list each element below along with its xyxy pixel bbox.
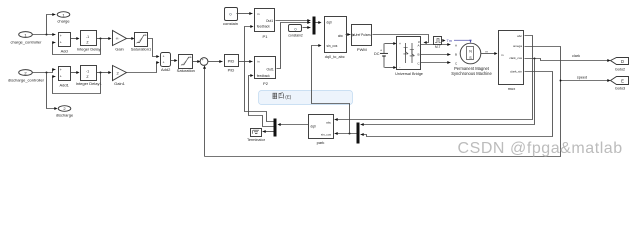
wire demux q to P2 feedback [249,74,274,127]
wire feedback loop row2 to Add1 in2 [52,73,100,94]
wire omega to speed goto and feedback [203,47,611,157]
svg-text:speed: speed [577,76,587,80]
wire Add to Integer Delay [71,37,80,40]
svg-text:E: E [621,78,624,83]
wire abc feedback to park [335,36,533,122]
svg-text:Synchronous Machine: Synchronous Machine [451,71,492,76]
svg-text:+: + [202,58,204,62]
svg-text:+: + [163,60,165,64]
svg-text:Out1: Out1 [266,19,273,23]
node clark label [572,54,580,58]
wire Saturation1 to Add2 in1 [148,39,160,59]
sum block Add2 [161,53,172,73]
wire P2 Out1 up to mux in2 [277,21,311,69]
wire branch up to outport charge [47,13,56,35]
svg-text:discharge: discharge [56,113,74,118]
wire PWM to bridge gate [373,35,429,45]
svg-text:in: in [257,60,260,64]
svg-text:+: + [60,68,62,72]
wire discharge_controller to Add1 in1 [33,68,56,73]
svg-text:Add1: Add1 [60,83,70,88]
block Integer Delay [77,31,101,52]
junction clark_cos branch [534,58,536,60]
svg-text:Saturation1: Saturation1 [131,47,152,52]
outport 2 discharge [56,106,74,118]
inport 2 discharge_controller [8,70,45,83]
svg-text:omega: omega [513,44,523,48]
svg-text:feedback: feedback [257,74,270,78]
svg-text:dq0: dq0 [311,124,317,128]
node Tm [447,39,472,43]
svg-text:PID: PID [228,68,235,73]
constant constain2 [288,25,303,38]
machine PMSM [451,43,492,76]
wire Gain1 to Add2 in2 [127,61,160,73]
outport 1 charge [57,12,70,24]
svg-text:constain2: constain2 [288,33,303,37]
junction on charge_controller wire [46,34,48,36]
svg-text:in: in [257,12,260,16]
wire Saturation to sum junction [193,60,201,63]
svg-text:Gain: Gain [115,47,123,52]
wire constain to P1 in [237,12,253,15]
svg-text:-K-: -K- [116,37,120,41]
svg-text:Goto2: Goto2 [615,67,625,71]
junction feedback row2 [100,72,102,74]
junction sin_cos branch [349,133,351,135]
gain Gain1 [113,66,127,87]
wire Add1 to Integer Delay1 [71,71,80,74]
svg-text:Universal Bridge: Universal Bridge [395,72,423,76]
wire Integer Delay1 to Gain1 [97,71,112,74]
wire clark mux to park sin_cos [335,132,357,135]
svg-text:abc: abc [517,34,522,38]
wire charge_controller to Add in1 [33,33,56,36]
sum block Add1 [59,67,71,88]
svg-text:Add2: Add2 [161,67,171,72]
wire sin_cos up to dq0_to_abc [312,44,350,134]
svg-text:B: B [455,52,457,56]
svg-text:Saturation: Saturation [177,68,195,73]
wire PID to P2 in [239,60,253,63]
svg-text:Uref Pulses: Uref Pulses [354,33,371,37]
demux dq bar [274,119,277,137]
svg-text:(E): (E) [285,95,292,100]
svg-text:feedback: feedback [257,25,270,29]
svg-text:sin_cos: sin_cos [321,132,332,136]
svg-text:Integer Delay: Integer Delay [77,47,101,52]
svg-text:+: + [60,75,62,79]
svg-text:P2: P2 [263,81,269,86]
wire constain2 to mux in3 [303,26,311,29]
wire DC minus to bridge [385,66,397,69]
wire branch down to outport discharge [47,73,58,111]
svg-text:abc: abc [338,34,344,38]
wire bridge B to machine B [421,53,451,56]
mux clark bar [357,123,360,144]
svg-text:Goto3: Goto3 [615,87,625,91]
svg-text:constain: constain [223,21,238,26]
mux dq0 bar [313,17,316,35]
wire Add2 to Saturation [171,59,178,62]
svg-text:PID: PID [228,59,235,64]
svg-text:+: + [60,34,62,38]
wire clark_cos down to clark mux [361,59,535,127]
svg-text:charge_controller: charge_controller [11,39,43,44]
wire mux bar to dq0_to_abc [316,21,322,24]
svg-text:Gain1: Gain1 [114,81,125,86]
block Saturation [177,55,195,74]
block Terminator [247,129,266,142]
junction omega to goto3 [560,80,562,82]
wire sum junction to PID [208,60,223,63]
svg-text:N: N [469,50,472,54]
wire M.T to Tm [442,39,445,42]
svg-text:clark_cos: clark_cos [509,56,522,60]
tooltip menu item [259,91,353,105]
sum block Add [59,33,71,54]
svg-text:+: + [163,54,165,58]
svg-text:A: A [417,44,419,48]
wire bridge A to machine A [421,43,451,46]
svg-text:+: + [380,49,382,53]
sum junction circle [200,58,208,67]
svg-text:CSDN @fpga&matlab: CSDN @fpga&matlab [458,140,623,157]
subsystem P2 [255,57,276,86]
wire feedback loop row1 to Add in2 [52,39,100,55]
wire demux d to P1 feedback [245,25,274,122]
wire clark_sin down to clark mux [361,72,553,137]
svg-text:P1: P1 [263,34,269,39]
subsystem P1 [255,9,275,39]
svg-text:Tm: Tm [447,39,452,43]
DC voltage source [374,44,388,68]
svg-text:-: - [399,66,400,70]
svg-text:clark_sin: clark_sin [510,70,522,74]
wire Integer Delay to Gain [97,37,112,40]
subsystem dq0_to_abc [325,17,347,60]
svg-text:Out1: Out1 [266,67,273,71]
block Integer Delay1 [76,66,103,87]
svg-text:M.T: M.T [435,45,441,49]
svg-text:-1: -1 [86,70,89,74]
goto Goto3 [611,77,629,91]
wire P1 Out1 to mux in1 [276,19,311,22]
wire machine m to mux block [481,50,498,55]
wire dq0_to_abc abc to PWM [346,33,351,36]
watermark CSDN [458,140,623,157]
wire park dq0 to demux bar [278,123,309,126]
junction feedback row1 [100,38,102,40]
svg-text:Integer Delay1: Integer Delay1 [76,81,103,86]
gain Gain [113,31,127,52]
svg-text:discharge_controller: discharge_controller [8,77,45,82]
svg-text:abc: abc [326,121,331,125]
svg-text:DC: DC [374,52,380,56]
svg-text:dq0_to_abc: dq0_to_abc [325,55,345,59]
svg-text:+: + [60,41,62,45]
subsystem park [309,115,334,146]
svg-text:clark: clark [572,54,580,58]
block PID [225,55,239,73]
node speed label [577,76,587,80]
wire Gain to Saturation1 [127,37,135,40]
svg-text:charge: charge [57,19,70,24]
svg-text:B: B [417,53,419,57]
goto Goto2 [611,58,629,72]
svg-text:A: A [455,43,457,47]
svg-text:park: park [317,140,325,145]
svg-text:-1: -1 [86,35,89,39]
source block M.T [434,37,442,50]
block PWM Uref Pulses [352,25,372,53]
svg-text:Add: Add [61,49,68,54]
svg-text:D: D [621,59,624,64]
inport 1 charge_controller [11,32,43,45]
wire demux zero to Terminator [263,130,274,133]
wire bridge C to machine C [421,61,451,64]
wire DC plus to bridge [385,42,397,45]
wire clark_cos to goto2 [525,59,611,63]
block Universal Bridge [395,37,423,77]
constant constain [223,8,238,26]
block Saturation1 [131,33,152,52]
svg-text:+: + [399,42,401,46]
svg-text:PWM: PWM [357,47,367,52]
junction on discharge_controller wire [46,72,48,74]
svg-text:sin_cos: sin_cos [327,44,338,48]
svg-text:mux: mux [508,86,516,91]
subsystem mux measurements [499,31,524,91]
svg-text:dq0: dq0 [327,20,333,24]
svg-text:Terminator: Terminator [247,138,266,142]
